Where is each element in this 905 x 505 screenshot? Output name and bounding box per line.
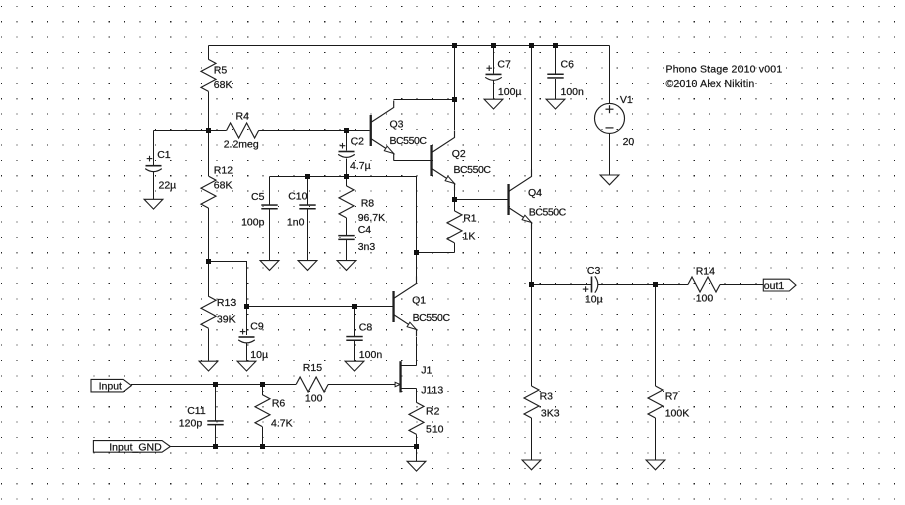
svg-text:100K: 100K	[665, 408, 690, 420]
wire node to C9 node	[209, 262, 247, 307]
ground C5	[260, 261, 279, 271]
wire R7 bottom lead	[655, 418, 657, 460]
voltage source V1	[595, 94, 635, 148]
svg-text:C8: C8	[359, 322, 373, 334]
wire V1 bottom lead	[609, 133, 611, 175]
wire R12 top lead	[208, 131, 210, 177]
svg-text:68K: 68K	[214, 79, 233, 91]
junction C2 bottom node	[344, 174, 349, 179]
wire R7 top lead	[655, 285, 657, 387]
svg-text:R15: R15	[303, 362, 322, 374]
svg-text:R4: R4	[236, 111, 250, 123]
junction gnd C11	[213, 444, 218, 449]
junction C2 top node	[344, 128, 349, 133]
wire R1 top lead	[454, 200, 456, 211]
ground R13	[199, 361, 218, 371]
resistor R7	[648, 386, 689, 420]
wire R5 top lead	[208, 46, 210, 60]
junction output node	[529, 282, 534, 287]
ground C8	[345, 361, 364, 371]
capacitor C8	[346, 322, 382, 361]
port Input_GND	[93, 441, 170, 454]
svg-text:Input: Input	[99, 380, 122, 392]
wire R13 top lead	[208, 262, 210, 297]
wire C5 bottom lead	[269, 210, 271, 261]
wire C7 bottom lead	[493, 81, 495, 100]
junction rail Q2	[452, 43, 457, 48]
svg-text:10µ: 10µ	[250, 349, 268, 361]
svg-text:C7: C7	[497, 59, 511, 71]
ground R2	[407, 461, 426, 471]
wire Q1 base	[247, 306, 393, 308]
wire R8 to C4	[346, 218, 348, 235]
wire C6 bottom lead	[555, 79, 557, 99]
wire Q1 emitter to J1 drain	[416, 337, 418, 366]
ground V1	[600, 175, 619, 185]
wire R1 bottom lead	[454, 243, 456, 253]
wire R4 to Q3 base	[259, 130, 370, 132]
junction rail C7	[491, 43, 496, 48]
svg-text:BC550C: BC550C	[529, 207, 567, 219]
junction input C11	[213, 382, 218, 387]
wire C7 top lead	[493, 46, 495, 74]
svg-text:4.7K: 4.7K	[271, 417, 293, 429]
wire R5 to node	[208, 91, 210, 130]
svg-text:510: 510	[426, 424, 444, 436]
svg-text:Q3: Q3	[390, 118, 404, 130]
svg-text:4.7µ: 4.7µ	[350, 160, 371, 172]
svg-text:120p: 120p	[179, 418, 203, 430]
svg-text:C3: C3	[587, 265, 601, 277]
transistor Q4	[507, 170, 566, 230]
svg-text:C4: C4	[358, 224, 372, 236]
svg-text:BC550C: BC550C	[454, 164, 492, 176]
wire output node to C3	[532, 284, 591, 286]
wire C10 top lead	[307, 177, 309, 205]
junction rail C6	[553, 43, 558, 48]
svg-text:BC550C: BC550C	[413, 312, 451, 324]
svg-text:©2010 Alex Nikitin: ©2010 Alex Nikitin	[666, 78, 755, 90]
wire R2 ground lead	[416, 447, 418, 462]
wire Q4 collector rail	[531, 46, 533, 170]
resistor R8	[339, 186, 385, 224]
transistor Q1	[392, 277, 450, 337]
junction R12 R13 node	[206, 259, 211, 264]
svg-text:J113: J113	[421, 384, 443, 396]
svg-text:100n: 100n	[359, 349, 383, 361]
wire V1 top lead	[609, 46, 611, 104]
capacitor C6	[547, 59, 584, 99]
resistor R6	[255, 395, 293, 430]
svg-text:C11: C11	[187, 405, 206, 417]
svg-text:20: 20	[623, 136, 635, 148]
wire input ground rail	[170, 446, 416, 448]
resistor R2	[409, 402, 444, 435]
wire R2 to ground node	[416, 434, 418, 446]
wire C3 to R7 node	[598, 284, 656, 286]
capacitor C4	[338, 224, 375, 253]
wire C8 top lead	[354, 307, 356, 336]
resistor R1	[447, 211, 477, 243]
capacitor C2	[338, 136, 370, 172]
ground C4	[337, 261, 356, 271]
wire R8 top lead	[346, 177, 348, 186]
svg-text:C5: C5	[251, 191, 265, 203]
capacitor C1	[145, 149, 176, 191]
port Input	[91, 379, 131, 392]
svg-text:C1: C1	[157, 149, 171, 161]
resistor R13	[201, 296, 236, 328]
junction input R6	[260, 382, 265, 387]
wire feedback rail	[270, 176, 417, 178]
wire R12 bottom lead	[208, 208, 210, 261]
wire C11 bottom lead	[215, 425, 217, 446]
svg-text:96.7K: 96.7K	[358, 212, 385, 224]
svg-text:J1: J1	[421, 365, 432, 377]
ground C10	[298, 261, 317, 271]
junction R7 node	[653, 282, 658, 287]
wire R7 node to R14	[656, 284, 689, 286]
wire C4 bottom lead	[346, 240, 348, 261]
svg-text:C2: C2	[351, 136, 365, 148]
port out1	[763, 279, 796, 292]
svg-text:R14: R14	[696, 265, 715, 277]
capacitor C9	[238, 321, 268, 361]
svg-text:R12: R12	[214, 164, 233, 176]
junction gnd R6	[260, 444, 265, 449]
svg-text:100p: 100p	[241, 217, 265, 229]
wire C9 bottom lead	[246, 343, 248, 362]
svg-text:V1: V1	[620, 94, 633, 106]
wire feedback to Q1 collector	[416, 177, 418, 277]
wire C10 bottom lead	[307, 210, 309, 261]
svg-text:100µ: 100µ	[498, 86, 522, 98]
capacitor C7	[485, 59, 521, 99]
capacitor C3	[583, 265, 603, 305]
wire R6 bottom lead	[262, 427, 264, 447]
svg-text:100: 100	[305, 393, 323, 405]
svg-text:R1: R1	[463, 212, 477, 224]
svg-text:R6: R6	[272, 397, 286, 409]
svg-text:R8: R8	[361, 197, 375, 209]
resistor R5	[201, 59, 232, 91]
junction Q3 collector node	[452, 97, 457, 102]
capacitor C10	[287, 191, 316, 229]
wire R14 to out1 port	[720, 284, 763, 286]
svg-text:R7: R7	[665, 390, 679, 402]
svg-text:100n: 100n	[561, 86, 585, 98]
ground C9	[237, 361, 256, 371]
wire top supply rail	[209, 45, 610, 47]
svg-text:R3: R3	[540, 390, 554, 402]
wire C8 bottom lead	[354, 341, 356, 361]
wire J1 source to R2	[416, 389, 418, 403]
wire Q2 collector rail	[454, 46, 456, 131]
resistor R12	[201, 164, 233, 208]
junction C8 node	[352, 304, 357, 309]
transistor Q3	[370, 101, 428, 161]
wire Q4 emitter to output node	[531, 230, 533, 285]
svg-text:3K3: 3K3	[541, 408, 560, 420]
svg-text:out1: out1	[764, 280, 785, 292]
svg-text:C9: C9	[250, 321, 264, 333]
wire C2 top lead	[346, 131, 348, 151]
junction rail Q4	[529, 43, 534, 48]
capacitor C11	[179, 405, 224, 430]
svg-text:1n0: 1n0	[287, 217, 305, 229]
wire R1 bottom to node	[417, 252, 455, 254]
junction Q2 emitter node	[452, 197, 457, 202]
svg-text:Phono Stage 2010 v001: Phono Stage 2010 v001	[666, 64, 783, 76]
resistor R14	[688, 265, 720, 304]
copyright text	[666, 78, 755, 90]
svg-text:R5: R5	[214, 64, 228, 76]
svg-text:Input_GND: Input_GND	[109, 441, 162, 453]
ground C1	[144, 199, 163, 209]
wire C9 top lead	[246, 307, 248, 336]
wire R3 bottom lead	[531, 418, 533, 460]
wire C1 to R4 node	[154, 130, 227, 132]
svg-text:2.2meg: 2.2meg	[224, 139, 259, 151]
wire Q3 emitter to Q2 base	[394, 160, 431, 162]
wire Q3 collector	[394, 99, 455, 101]
svg-text:1K: 1K	[463, 230, 476, 242]
svg-text:Q4: Q4	[528, 187, 542, 199]
junction C9 node	[244, 304, 249, 309]
wire Q2 emitter to node	[454, 190, 456, 200]
svg-text:10µ: 10µ	[585, 293, 603, 305]
jfet J1	[395, 361, 443, 396]
wire R13 bottom lead	[208, 328, 210, 361]
svg-text:Q2: Q2	[452, 148, 466, 160]
wire C2 bottom lead	[346, 158, 348, 176]
wire Q2 to Q4 base	[455, 199, 508, 201]
wire R6 top lead	[262, 385, 264, 395]
resistor R4	[224, 111, 259, 151]
svg-text:C10: C10	[288, 191, 307, 203]
svg-text:C6: C6	[561, 59, 575, 71]
svg-text:Q1: Q1	[412, 295, 426, 307]
junction gnd R2	[414, 444, 419, 449]
junction C10 top node	[305, 174, 310, 179]
junction R4 node	[206, 128, 211, 133]
svg-text:BC550C: BC550C	[390, 135, 428, 147]
ground C6	[546, 99, 565, 109]
ground C7	[484, 99, 503, 109]
transistor Q2	[430, 131, 491, 191]
junction Q1 collector node	[414, 250, 419, 255]
svg-text:R13: R13	[217, 297, 236, 309]
ground R7	[646, 460, 665, 470]
svg-text:22µ: 22µ	[159, 179, 177, 191]
wire C11 top lead	[215, 385, 217, 421]
wire C1 top lead	[153, 131, 155, 166]
wire R15 to J1 gate	[328, 384, 395, 386]
resistor R15	[296, 362, 328, 405]
wire R3 top lead	[531, 285, 533, 387]
wire C1 bottom lead	[153, 172, 155, 200]
title text	[666, 64, 783, 76]
wire input rail	[131, 384, 296, 386]
ground R3	[522, 460, 541, 470]
wire C5 top lead	[269, 177, 271, 205]
svg-text:68K: 68K	[214, 179, 233, 191]
svg-text:3n3: 3n3	[358, 241, 376, 253]
svg-text:R2: R2	[426, 406, 440, 418]
svg-text:39K: 39K	[217, 314, 236, 326]
wire C6 top lead	[555, 46, 557, 74]
capacitor C5	[241, 191, 278, 229]
svg-text:100: 100	[696, 293, 714, 305]
resistor R3	[524, 386, 560, 420]
